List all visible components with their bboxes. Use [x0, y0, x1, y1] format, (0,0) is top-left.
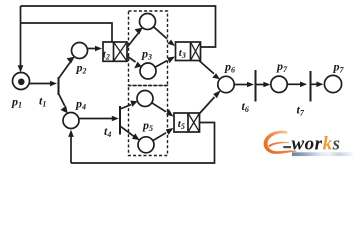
t2 divider — [113, 42, 115, 61]
svg-text:p7: p7 — [276, 59, 288, 74]
svg-text:t6: t6 — [242, 99, 249, 114]
place p5 upper — [137, 91, 153, 107]
arrowhead p5a to t5 — [166, 109, 173, 117]
t3 cross — [191, 42, 201, 61]
arrowhead p2 to t2 — [95, 46, 102, 52]
place p3 lower — [140, 63, 156, 79]
arrowhead into p3b — [134, 62, 141, 69]
wire p3b to t3 — [155, 61, 167, 68]
wire p6 to t6 — [235, 84, 248, 86]
wire vertical into p1 — [20, 6, 22, 66]
svg-text:t3: t3 — [179, 47, 186, 60]
svg-text:p4: p4 — [75, 97, 86, 112]
arrowhead p5b to t5 — [166, 128, 174, 135]
e-works logo swoosh e main stroke — [264, 131, 297, 154]
arrowhead into p2 — [67, 57, 75, 64]
wire top feedback loop t3 to p1 — [21, 6, 216, 47]
svg-text:t1: t1 — [39, 94, 46, 109]
wire p5b to t5 — [153, 133, 166, 141]
svg-text:p6: p6 — [224, 60, 235, 75]
place p5 lower — [138, 137, 154, 153]
wire p1 to t1 — [29, 83, 50, 85]
wire p2 to t2 — [88, 48, 95, 50]
wire t7 to p8 — [311, 83, 317, 85]
arrowhead t6 to p7 — [263, 82, 270, 88]
wire p7 to t7 — [287, 83, 300, 85]
arrowhead t7 to p8 — [316, 82, 323, 88]
place p4 — [63, 113, 79, 129]
transition t4 bar — [119, 106, 121, 135]
arrowhead into p5a — [130, 101, 137, 107]
wire t6 to p7 — [256, 84, 264, 86]
svg-text:p7: p7 — [333, 60, 345, 75]
arrowhead into p5b — [132, 133, 140, 140]
arrowhead p3b to t3 — [167, 57, 175, 64]
wire p4 feedback riser — [70, 137, 72, 164]
place p2 — [72, 43, 88, 59]
place p7 — [271, 76, 287, 92]
dashed box p5 — [129, 86, 168, 156]
transition t7 bar — [310, 71, 312, 102]
wire t2 to p3a — [127, 34, 138, 48]
svg-text:t7: t7 — [297, 103, 305, 118]
arrowhead into p1 — [18, 65, 24, 72]
svg-text:t4: t4 — [104, 124, 111, 139]
t5 divider — [187, 113, 189, 132]
wire t1 to p2 — [59, 63, 71, 79]
place p8 — [324, 75, 341, 92]
t2 cross — [114, 42, 128, 61]
transition t2 box — [103, 42, 127, 61]
wire t1 to p4 — [59, 94, 65, 107]
token in p1 — [18, 79, 25, 86]
wire t2 to p3b — [127, 56, 136, 62]
svg-text:t5: t5 — [178, 118, 185, 131]
transition t6 bar — [255, 70, 257, 102]
place p3 upper — [140, 14, 156, 30]
wire t5 to p6 — [200, 97, 215, 114]
wire t5 feedback loop to p4 — [71, 123, 215, 164]
wire t3 to p6 — [199, 61, 214, 74]
wire p3a to t3 — [154, 27, 168, 39]
wire second feedback loop t2 to p1 — [21, 23, 113, 42]
transition t3 box — [176, 42, 201, 61]
transition t5 box — [174, 113, 200, 132]
wire t4 to p5b — [120, 126, 134, 136]
svg-text:p3: p3 — [141, 47, 152, 62]
svg-text:t2: t2 — [103, 49, 110, 62]
wire p4 to t4 — [79, 118, 112, 120]
dashed box p3 — [129, 11, 168, 86]
arrowhead p3a to t3 — [167, 40, 175, 46]
t5 cross — [188, 113, 200, 132]
place p1 — [13, 73, 30, 90]
svg-text:works: works — [292, 134, 341, 155]
e-works logo blue bar — [292, 152, 354, 156]
arrowhead p7 to t7 — [300, 82, 307, 88]
arrowhead p6 to t6 — [247, 82, 254, 88]
arrowhead into p4 — [61, 106, 68, 114]
transition t1 bar — [58, 77, 60, 95]
arrowhead into p3a — [135, 28, 143, 35]
arrowhead p4 to t4 — [112, 116, 119, 122]
e-works logo hyphen — [283, 146, 291, 148]
wire p5a to t5 — [152, 103, 166, 112]
arrowhead t5 to p6 — [213, 90, 221, 98]
arrowhead into p4 bottom — [68, 130, 74, 137]
t3 divider — [190, 42, 192, 61]
arrowhead t3 to p6 — [212, 73, 220, 79]
e-works logo swoosh e crossbar — [268, 142, 289, 147]
place p6 — [218, 76, 234, 92]
svg-text:p2: p2 — [76, 61, 87, 76]
svg-text:p1: p1 — [11, 95, 22, 110]
svg-text:p5: p5 — [142, 118, 153, 133]
arrowhead p1 to t1 — [50, 81, 57, 87]
wire t4 to p5a — [120, 105, 131, 109]
